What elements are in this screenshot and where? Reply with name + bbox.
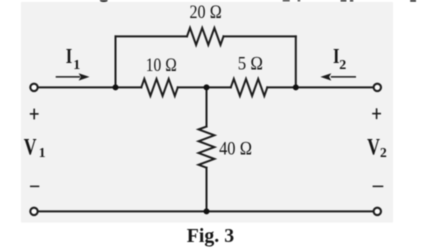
node A junction dot	[113, 84, 119, 90]
label I1	[66, 44, 81, 73]
wire: main left segment	[38, 86, 141, 88]
node C junction dot	[293, 84, 299, 90]
wire: top branch left vertical	[115, 36, 117, 87]
label V2	[367, 134, 387, 159]
svg-text:10 Ω: 10 Ω	[146, 55, 177, 76]
svg-text:I: I	[66, 44, 73, 68]
panel	[21, 2, 393, 223]
minus sign port 1	[30, 186, 39, 188]
wire: top branch right vertical	[295, 36, 297, 87]
resistor 40 ohm zigzag	[199, 127, 215, 168]
terminal port 2 bottom	[374, 208, 381, 215]
resistor 10 ohm zigzag	[141, 79, 178, 96]
label V1	[24, 135, 46, 161]
wire: top branch right horizontal	[224, 35, 296, 37]
wire: vertical branch top	[206, 87, 208, 126]
wire: main right segment	[267, 86, 373, 88]
node B junction dot	[204, 84, 210, 90]
terminal port 2 top	[374, 84, 381, 91]
wire: top branch left horizontal	[116, 35, 188, 37]
svg-text:2: 2	[339, 58, 346, 73]
resistor 20 ohm zigzag	[187, 28, 224, 45]
minus sign port 2	[373, 186, 384, 188]
svg-text:1: 1	[73, 58, 80, 73]
current arrow I1	[56, 73, 90, 80]
svg-text:V: V	[24, 135, 37, 160]
plus sign port 1	[30, 109, 39, 120]
svg-text:1: 1	[39, 145, 46, 160]
svg-text:5 Ω: 5 Ω	[238, 54, 264, 75]
svg-text:2: 2	[380, 145, 387, 160]
svg-text:40 Ω: 40 Ω	[219, 138, 252, 159]
node D junction dot (bottom)	[204, 208, 210, 214]
svg-text:Fig. 3: Fig. 3	[187, 225, 234, 247]
resistor 5 ohm zigzag	[231, 79, 267, 96]
wire: bottom return	[38, 210, 373, 212]
label I2	[333, 44, 346, 73]
plus sign port 2	[372, 108, 381, 119]
svg-text:V: V	[367, 134, 380, 159]
wire: main middle segment	[178, 86, 231, 88]
current arrow I2	[320, 73, 356, 80]
cropped text fragment dashes top-middle	[283, 0, 416, 2]
cropped text fragment blob top-left	[100, 0, 108, 2]
terminal port 1 bottom	[30, 208, 37, 215]
svg-text:20 Ω: 20 Ω	[190, 2, 222, 23]
terminal port 1 top	[30, 84, 37, 91]
wire: vertical branch bottom	[206, 168, 208, 212]
